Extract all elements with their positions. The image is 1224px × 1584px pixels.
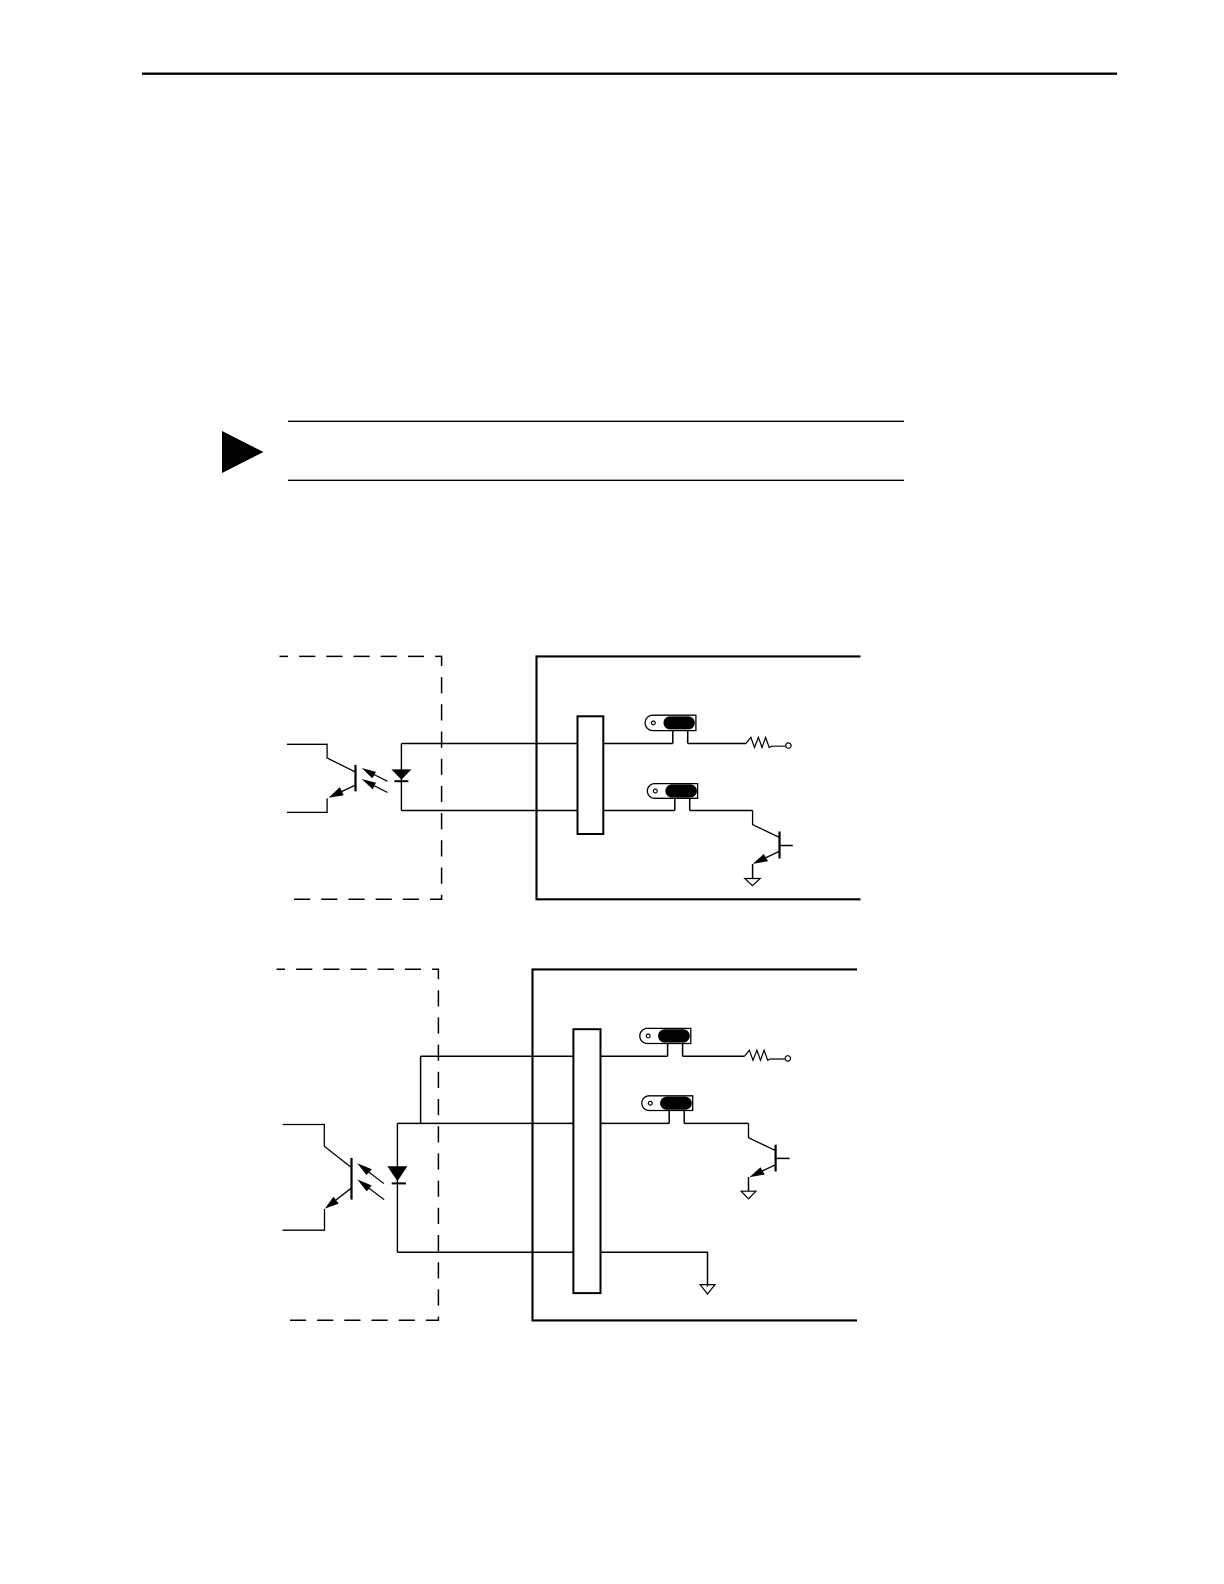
wire: connector to fuse F3 xyxy=(601,1055,668,1057)
wire: fuse F4 to transistor Q2 xyxy=(684,1122,748,1124)
wire: LED bottom to connector xyxy=(401,810,577,812)
wire: LED top to connector xyxy=(397,1122,573,1124)
drive unit box (open on right) xyxy=(537,656,861,899)
fuse F3 body outline xyxy=(640,1028,691,1043)
transistor Q1 base bar xyxy=(778,832,780,859)
optocoupler PC2 emitter lead with arrow xyxy=(328,1188,351,1206)
light arrow 1 xyxy=(368,772,388,782)
transistor Q1 collector path xyxy=(753,811,779,838)
wire: top rail to connector xyxy=(421,1055,574,1057)
optocoupler PC1 phototransistor collector lead xyxy=(287,744,355,772)
wire: connector to fuse F4 xyxy=(601,1122,670,1124)
optocoupler PC2 phototransistor collector lead xyxy=(283,1125,352,1168)
junction wire up to top rail xyxy=(420,1056,422,1123)
transistor Q1 base stub xyxy=(780,845,793,847)
optocoupler PC1 base bar xyxy=(354,765,356,792)
light arrow 2 xyxy=(368,783,388,793)
note box bottom rule xyxy=(288,479,904,481)
LED D1 cathode bar xyxy=(394,780,408,782)
wire: fuse F2 to transistor Q1 xyxy=(690,810,753,812)
note marker triangle xyxy=(222,431,264,473)
wire: LED top to connector xyxy=(401,743,577,745)
LED D2 triangle xyxy=(387,1166,407,1181)
resistor R2 xyxy=(745,1050,785,1060)
header rule xyxy=(142,73,1117,75)
drive unit box (open on right) xyxy=(533,969,858,1320)
open terminal circle xyxy=(785,1056,790,1061)
transistor Q1 emitter with arrow xyxy=(756,851,779,862)
wire: LED bottom to connector xyxy=(397,1251,573,1253)
fuse F1 black element xyxy=(664,716,695,729)
fuse F2 black element xyxy=(665,785,697,798)
connector CN2 xyxy=(573,1029,600,1293)
LED D2 cathode bar xyxy=(392,1182,406,1184)
dashed box (external controller side), open on left xyxy=(277,969,439,1320)
transistor Q2 collector path xyxy=(749,1123,775,1150)
light arrow 4 xyxy=(364,1185,384,1200)
transistor Q2 emitter down wire xyxy=(748,1177,750,1191)
wire: fuse F1 to resistor R1 xyxy=(688,743,746,745)
transistor Q2 base bar xyxy=(774,1145,776,1172)
open terminal circle xyxy=(786,743,791,748)
transistor Q2 base stub xyxy=(776,1157,790,1159)
fuse F4 pivot circle xyxy=(648,1101,652,1105)
fuse F1 pivot circle xyxy=(651,721,655,725)
fuse F1 legs xyxy=(672,731,674,744)
connector CN1 xyxy=(578,716,604,834)
fuse F2 body outline xyxy=(647,784,697,799)
wire: connector to fuse F1 xyxy=(603,743,673,745)
ground G1 xyxy=(745,879,760,886)
LED D2 vertical wire xyxy=(396,1123,398,1252)
fuse F3 black element xyxy=(658,1029,690,1042)
LED D1 vertical wire xyxy=(400,744,402,811)
ground G2 xyxy=(741,1191,756,1199)
fuse F4 black element xyxy=(660,1097,692,1110)
fuse F4 body outline xyxy=(642,1096,693,1111)
note box top rule xyxy=(288,420,904,422)
transistor Q1 emitter down wire xyxy=(752,864,754,878)
LED D1 triangle xyxy=(391,769,411,779)
ground G3 xyxy=(700,1285,715,1294)
fuse F2 legs xyxy=(674,798,676,810)
optocoupler PC1 emitter lead with arrow xyxy=(333,785,355,795)
fuse F2 pivot circle xyxy=(653,789,657,793)
wire: connector to fuse F2 xyxy=(603,810,675,812)
optocoupler PC1 emitter lower lead xyxy=(287,798,327,812)
resistor R1 xyxy=(746,737,785,747)
light arrow 3 xyxy=(364,1168,384,1183)
optocoupler PC2 base bar xyxy=(350,1158,352,1200)
transistor Q2 emitter with arrow xyxy=(753,1165,776,1176)
fuse F3 legs xyxy=(667,1044,669,1057)
optocoupler PC2 emitter lower lead xyxy=(283,1209,325,1230)
fuse F4 legs xyxy=(668,1111,670,1124)
wire: fuse F3 to resistor R2 xyxy=(683,1055,745,1057)
wire: connector bottom to ground xyxy=(601,1252,708,1286)
fuse F3 pivot circle xyxy=(646,1034,650,1038)
dashed box (external controller side), open on left xyxy=(280,656,442,899)
fuse F1 body outline xyxy=(645,715,696,730)
